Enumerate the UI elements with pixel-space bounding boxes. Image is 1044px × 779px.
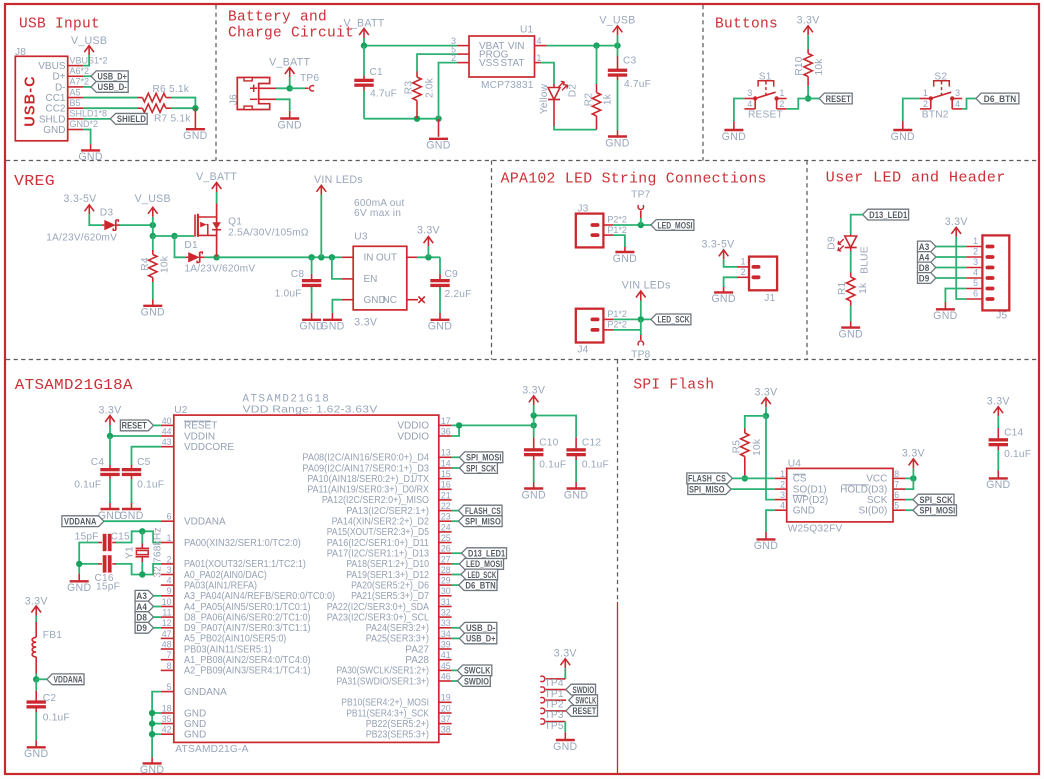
svg-text:VDD Range: 1.62-3.63V: VDD Range: 1.62-3.63V (243, 405, 378, 416)
svg-text:1: 1 (780, 469, 785, 479)
svg-text:J4: J4 (577, 345, 588, 356)
svg-text:PA23(I2C/SER3:0+)_SCL: PA23(I2C/SER3:0+)_SCL (327, 612, 430, 623)
svg-text:C14: C14 (1004, 428, 1023, 439)
U4 WP overline (793, 494, 807, 496)
svg-text:39: 39 (441, 639, 451, 649)
net tag D13_LED1 user led (863, 209, 909, 220)
test point TP7 (640, 218, 642, 225)
svg-text:PA08(I2C/AIN16/SER0:0+)_D4: PA08(I2C/AIN16/SER0:0+)_D4 (302, 453, 429, 464)
svg-text:1: 1 (537, 53, 542, 63)
ground at S1 (733, 121, 735, 130)
wire VSS to bottom rail (439, 63, 458, 119)
svg-text:TP4: TP4 (545, 678, 564, 689)
svg-text:RESET: RESET (572, 706, 596, 716)
svg-text:A3_PA04(AIN4/REFB/SER0:0/TC0:0: A3_PA04(AIN4/REFB/SER0:0/TC0:0) (184, 591, 335, 602)
svg-text:4.7uF: 4.7uF (624, 79, 651, 90)
capacitor C2 0.1uF (35, 679, 37, 690)
U2 pin 21 PA12(I2C/SER2:0+)_MISO (439, 499, 452, 501)
wire V_USB to VBUS pin (83, 55, 89, 66)
svg-text:1.0uF: 1.0uF (275, 289, 302, 300)
junction crystal top (139, 528, 145, 534)
junction crystal bottom (139, 571, 145, 577)
svg-text:3.3V: 3.3V (755, 386, 779, 398)
junction VDDIO C10 (531, 422, 537, 428)
diode D1 (186, 256, 188, 258)
svg-text:1k: 1k (602, 93, 613, 105)
IC U4 W25Q32FV box (787, 468, 893, 522)
wire U2 to tag D13_LED1 (452, 552, 462, 554)
svg-text:D13_LED1: D13_LED1 (869, 210, 907, 220)
ground at J3 (624, 247, 626, 252)
net tag RESET (819, 93, 852, 104)
ground at R7 (194, 108, 196, 129)
U4 pin 3 WP(D2) (775, 499, 787, 501)
J1 pin stubs (737, 266, 749, 268)
U2 pin 25 PA16(I2C/SER1:0+)_D11 (439, 542, 452, 544)
svg-text:GND: GND (891, 131, 915, 143)
svg-text:23: 23 (441, 512, 451, 522)
wire C1 bottom rail (364, 118, 439, 120)
supply 3.3V at FB1 (35, 606, 37, 616)
connector J3 body (576, 214, 604, 248)
svg-text:C12: C12 (582, 438, 601, 449)
test point TP4 (540, 676, 544, 681)
crystal Y1 32.768kHz (141, 531, 143, 543)
svg-text:SWDIO: SWDIO (572, 685, 594, 695)
J8 pin A6*2 (D+) stub (68, 75, 83, 77)
net tag A3 at J5 (918, 241, 936, 252)
ground at crystal caps (78, 574, 80, 582)
junction R5 bottom / CS (742, 475, 748, 481)
svg-text:46: 46 (441, 671, 451, 681)
U2 pin 45 PA30(SWCLK/SER1:2+) (439, 669, 452, 671)
svg-text:3.3-5V: 3.3-5V (63, 193, 97, 205)
svg-text:0.1uF: 0.1uF (582, 459, 609, 470)
svg-text:5: 5 (894, 501, 899, 511)
net tag LED_MOSI at U2 (459, 559, 503, 570)
wire SPI_MISO to SO (731, 488, 775, 490)
svg-text:1: 1 (923, 88, 928, 98)
svg-text:45: 45 (441, 661, 451, 671)
wire U2 to tag D6_BTN (452, 584, 459, 586)
switch S1 contacts and lever (753, 96, 757, 100)
svg-text:PB23(SER5:3+): PB23(SER5:3+) (366, 730, 429, 741)
J4 pad 1 (591, 318, 600, 322)
wire GND pin row 27 (152, 712, 161, 714)
junction R6/R7 (192, 105, 198, 111)
svg-text:B5: B5 (70, 98, 81, 108)
svg-text:2.0k: 2.0k (424, 77, 435, 98)
J5 pin 3 stub (966, 267, 982, 269)
svg-text:2.2uF: 2.2uF (445, 289, 472, 300)
connector J1 body (749, 257, 777, 291)
svg-text:10k: 10k (159, 255, 170, 273)
svg-text:Charge Circuit: Charge Circuit (228, 26, 354, 42)
svg-text:R2: R2 (583, 93, 594, 107)
svg-text:VDDANA: VDDANA (184, 517, 226, 528)
svg-text:19: 19 (441, 693, 451, 703)
svg-text:USB_D-: USB_D- (466, 623, 496, 633)
svg-text:31: 31 (441, 597, 451, 607)
net tag FLASH_CS at U4 (687, 473, 733, 484)
svg-text:U3: U3 (354, 232, 368, 243)
junction RESET net (805, 95, 811, 101)
svg-text:PA11(AIN19/SER0:3+)_D0/RX: PA11(AIN19/SER0:3+)_D0/RX (307, 485, 429, 496)
svg-text:APA102 LED String Connections: APA102 LED String Connections (501, 172, 767, 188)
svg-text:MCP73831: MCP73831 (481, 80, 534, 91)
connector J4 body (576, 309, 604, 343)
svg-text:2: 2 (780, 99, 785, 109)
svg-text:13: 13 (441, 448, 451, 458)
U2 pin 38 PB23(SER5:3+) (439, 733, 452, 735)
wire VDDCORE to C5 (132, 447, 161, 465)
U2 pin 48 PB03(AIN11/SER5:1) (161, 648, 174, 650)
wire S1 pin3 to ground (734, 99, 745, 122)
svg-text:D13_LED1: D13_LED1 (468, 549, 505, 559)
capacitor C8 1.0uF (311, 257, 313, 274)
U2 pin 27 PA18(SER1:2+)_D10 (439, 563, 452, 565)
section divider vertical mcu/spiflash dashed part (617, 360, 619, 603)
svg-text:A3: A3 (136, 591, 147, 601)
wire 3.3V down to WP (766, 416, 775, 500)
J6 plus mark (250, 85, 257, 92)
wire 3.3V to VDDIN (110, 425, 161, 436)
svg-text:11: 11 (162, 608, 171, 618)
svg-text:VDDANA: VDDANA (64, 517, 97, 527)
junction U3 OUT (425, 254, 431, 260)
svg-text:A4_PA05(AIN5/SER0:1/TC0:1): A4_PA05(AIN5/SER0:1/TC0:1) (184, 602, 311, 613)
supply V_BATT main (363, 29, 365, 39)
svg-text:42: 42 (162, 725, 172, 735)
wire VCC to 3.3V (905, 477, 913, 479)
wire C16 to XOUT staple (116, 564, 161, 575)
U2 pin 34 PA25(SER3:3+) (439, 637, 452, 639)
U4 pin 8 VCC (893, 477, 905, 479)
junction R2 top (593, 42, 599, 48)
ground at C9 (439, 313, 441, 320)
net tag USB_D- at U2 (459, 622, 496, 633)
svg-text:VCC: VCC (866, 474, 887, 485)
resistor R2 1k (596, 46, 598, 84)
ground at C12 (575, 482, 577, 489)
svg-text:GND: GND (564, 489, 588, 501)
svg-text:3.3V: 3.3V (554, 648, 578, 660)
svg-text:R6 5.1k: R6 5.1k (153, 84, 190, 95)
U2 pin 1 PA00(XIN32/SER1:0/TC2:0) (161, 542, 174, 544)
wire A3 tag to U2 (154, 595, 161, 597)
svg-text:41: 41 (441, 650, 451, 660)
wire CC1 to R6 (83, 97, 138, 99)
svg-text:PA13(I2C/SER2:1+): PA13(I2C/SER2:1+) (346, 506, 429, 517)
svg-text:PB10(SER4:2+)_MOSI: PB10(SER4:2+)_MOSI (341, 698, 429, 709)
svg-text:IN: IN (364, 252, 374, 263)
net tag SPI_MOSI at U2 (459, 452, 502, 463)
U2 pin 17 VDDIO (439, 424, 452, 426)
wire U2 to tag USB_D+ (452, 637, 460, 639)
net tag SWCLK at TP2 (569, 695, 598, 706)
svg-text:USB_D+: USB_D+ (98, 72, 127, 82)
U4 pin 6 SCK (893, 499, 905, 501)
J8 pin VBUS1*2 (VBUS) stub (68, 65, 83, 67)
net tag RESET at TP3 (566, 706, 598, 717)
U3 pin GND (342, 299, 354, 301)
J8 pin A7*2 (D-) stub (68, 86, 83, 88)
svg-text:Yellow: Yellow (539, 83, 550, 114)
ground at U2 (151, 758, 153, 764)
wire 3.3-5V to J1 pin1 (724, 259, 737, 267)
junction GND row 27 (149, 710, 155, 716)
test point TP6 (305, 87, 309, 89)
wire J3 pin1 to LED_MOSI (613, 224, 651, 226)
LED D9 BLUE (850, 235, 852, 237)
wire OUT to 3.3V junction (417, 256, 440, 258)
svg-text:V_BATT: V_BATT (196, 171, 237, 183)
svg-text:2: 2 (923, 99, 928, 109)
svg-text:SCK: SCK (867, 495, 888, 506)
svg-text:U1: U1 (520, 25, 534, 36)
net tag RESET at U2 (120, 420, 153, 431)
svg-text:D8: D8 (919, 263, 930, 273)
svg-text:A6*2: A6*2 (70, 66, 90, 76)
resistor R5 10k (744, 429, 746, 434)
svg-text:9: 9 (167, 586, 172, 596)
U2 pin 46 PA31(SWDIO/SER1:3+) (439, 680, 452, 682)
supply 3.3V at R5 (765, 398, 767, 408)
wire main rail to U3 IN (217, 256, 342, 258)
wire J5 pin5 to ground (945, 289, 966, 303)
U3 GND wire to ground (332, 300, 341, 313)
svg-text:P1*2: P1*2 (607, 309, 627, 319)
svg-text:FB1: FB1 (43, 630, 62, 641)
net tag SPI_MOSI at U4 (913, 505, 957, 516)
U2 pin 23 PA14(XIN/SER2:2+)_D2 (439, 520, 452, 522)
supply V_USB battery section (617, 26, 619, 36)
resistor R4 10k (152, 236, 154, 250)
wire C15 C16 left rail (79, 543, 98, 574)
svg-text:GND: GND (722, 131, 746, 143)
J5 pin 5 stub (966, 288, 982, 290)
svg-text:U2: U2 (174, 405, 188, 416)
svg-text:EN: EN (364, 274, 378, 285)
svg-text:6V max in: 6V max in (354, 208, 401, 219)
svg-text:V_USB: V_USB (135, 193, 171, 205)
svg-text:PB03(AIN11/SER5:1): PB03(AIN11/SER5:1) (184, 644, 272, 655)
svg-text:1: 1 (780, 88, 785, 98)
svg-text:10k: 10k (814, 58, 825, 76)
svg-text:C15: C15 (111, 532, 130, 543)
capacitor C1 4.7uF (363, 46, 365, 76)
J6 pin stubs (259, 87, 276, 89)
svg-text:30: 30 (441, 586, 451, 596)
J1 pad 1 (752, 265, 761, 269)
J5 pad 2 (986, 255, 995, 259)
net tag USB_D- (83, 86, 91, 88)
svg-text:A4: A4 (136, 602, 147, 612)
J5 pad 1 (986, 245, 995, 249)
svg-text:VIN LEDs: VIN LEDs (622, 280, 671, 292)
svg-text:D-: D- (55, 82, 66, 93)
wire 3.3V to R10 (807, 35, 809, 49)
svg-text:P2*2: P2*2 (607, 215, 627, 225)
svg-text:GND: GND (184, 730, 206, 741)
svg-text:FLASH_CS: FLASH_CS (688, 474, 726, 484)
svg-text:BLUE: BLUE (860, 246, 871, 273)
svg-text:29: 29 (441, 576, 451, 586)
svg-text:47: 47 (162, 629, 172, 639)
junction Q1 drain / D1 (213, 254, 219, 260)
section divider vertical battery/buttons (702, 5, 704, 161)
svg-text:34: 34 (441, 629, 451, 639)
svg-text:D6_BTN: D6_BTN (465, 580, 495, 590)
capacitor C12 0.1uF (575, 437, 577, 448)
svg-text:A5_PB02(AIN10/SER5:0): A5_PB02(AIN10/SER5:0) (184, 634, 286, 645)
supply 3.3V at VDDIN (109, 416, 111, 426)
svg-text:User LED and Header: User LED and Header (826, 171, 1006, 187)
resistor R6 5.1k (138, 97, 143, 99)
svg-text:BTN2: BTN2 (922, 109, 949, 120)
svg-text:SHIELD: SHIELD (117, 114, 147, 124)
IC U3 regulator box (353, 246, 407, 310)
wire J4 pin2 and TP8 stem (640, 319, 642, 335)
J5 pin 4 stub (966, 277, 982, 279)
svg-text:LED_MOSI: LED_MOSI (466, 559, 502, 569)
svg-text:GND: GND (933, 310, 957, 322)
wire SI to SPI_MOSI tag (905, 509, 913, 511)
ground at C8 (311, 313, 313, 320)
svg-text:C9: C9 (445, 269, 459, 280)
capacitor C15 15pF (103, 534, 107, 551)
wire gate branch to Q1 gate (175, 235, 195, 237)
U2 pin 35 GND (161, 723, 174, 725)
junction VSS bottom (435, 116, 441, 122)
svg-text:C8: C8 (291, 269, 305, 280)
svg-text:GND: GND (183, 130, 207, 142)
net tag LED_SCK at U2 (461, 569, 498, 580)
junction EN branch (329, 254, 335, 260)
U4 pin 5 SI(D0) (893, 509, 905, 511)
wire J1 pin2 to ground (724, 277, 737, 287)
svg-text:RESET: RESET (122, 421, 148, 431)
wire D2 to R2 bottom (554, 126, 597, 130)
resistor R3 2.0k (416, 72, 418, 78)
svg-text:GND: GND (428, 321, 452, 333)
svg-text:GND: GND (140, 764, 164, 776)
svg-text:GND: GND (553, 741, 577, 753)
svg-text:A2_PB09(AIN3/SER4:1/TC4:1): A2_PB09(AIN3/SER4:1/TC4:1) (184, 666, 311, 677)
svg-text:PA19(SER1:3+)_D12: PA19(SER1:3+)_D12 (346, 570, 429, 581)
svg-text:5: 5 (973, 278, 978, 288)
net tag D6_BTN (976, 93, 1019, 104)
capacitor C10 0.1uF (533, 425, 535, 437)
U2 pin 18 GND (161, 712, 174, 714)
svg-text:2: 2 (741, 267, 746, 277)
U2 pin 7 A1_PB08(AIN2/SER4:0/TC4:0) (161, 659, 174, 661)
svg-text:TP7: TP7 (631, 190, 650, 201)
svg-text:3: 3 (955, 88, 960, 98)
svg-text:25: 25 (441, 533, 451, 543)
U2 pin 37 PB22(SER5:2+) (439, 723, 452, 725)
U2 pin 5 GNDANA (161, 691, 174, 693)
wire VDDIO pin36 to rail (452, 425, 460, 436)
svg-text:2: 2 (451, 53, 456, 63)
U2 pin 47 A5_PB02(AIN10/SER5:0) (161, 637, 174, 639)
net tag SWDIO at U2 (457, 676, 490, 687)
svg-text:1: 1 (741, 257, 746, 267)
svg-text:15pF: 15pF (96, 582, 120, 593)
svg-text:W25Q32FV: W25Q32FV (788, 524, 843, 535)
svg-text:10: 10 (162, 597, 172, 607)
switch S2 contacts and lever (929, 96, 933, 100)
section divider vertical usb/battery (215, 5, 217, 161)
wire R10 to junction (807, 86, 809, 99)
U2 pin 4 PA03(AIN1/REFA) (161, 584, 174, 586)
J3 pin stubs (603, 224, 613, 226)
svg-text:NC: NC (383, 295, 397, 306)
ground at U4 (765, 532, 767, 540)
svg-text:TP3: TP3 (545, 710, 564, 721)
net tag D8 at J5 (918, 262, 936, 273)
svg-text:3: 3 (780, 490, 785, 500)
U2 pin 19 PB10(SER4:2+)_MOSI (439, 701, 452, 703)
svg-text:PA16(I2C/SER1:0+)_D11: PA16(I2C/SER1:0+)_D11 (327, 538, 430, 549)
net tag A4 at J5 (918, 252, 936, 263)
ground at J8 (90, 144, 92, 150)
svg-text:SO(D1): SO(D1) (793, 484, 827, 495)
wire U2 to tag LED_SCK (452, 574, 461, 576)
wire U2 to tag FLASH_CS (452, 510, 459, 512)
svg-text:GND: GND (711, 293, 735, 305)
svg-text:3.3V: 3.3V (417, 225, 441, 237)
svg-text:2: 2 (780, 480, 785, 490)
svg-text:GND: GND (141, 307, 165, 319)
svg-text:GND: GND (426, 140, 450, 152)
svg-text:SWCLK: SWCLK (464, 666, 491, 676)
svg-text:A0_PA02(AIN0/DAC): A0_PA02(AIN0/DAC) (184, 570, 267, 581)
test point TP2 (540, 697, 544, 703)
ground at C4 (109, 503, 111, 509)
svg-text:C4: C4 (91, 457, 105, 468)
svg-text:C3: C3 (623, 56, 637, 67)
svg-text:GND: GND (43, 125, 65, 136)
U2 pin 9 A3_PA04(AIN4/REFB/SER0:0/TC0:0) (161, 595, 174, 597)
svg-text:15: 15 (441, 469, 451, 479)
svg-text:USB-C: USB-C (22, 75, 38, 126)
svg-text:PA24(SER3:2+): PA24(SER3:2+) (366, 623, 429, 634)
U2 pin 20 PB11(SER4:3+)_SCK (439, 712, 452, 714)
svg-text:CS: CS (793, 474, 807, 485)
supply 3.3V at C14 (997, 407, 999, 417)
U4 pin 7 HOLD(D3) (893, 488, 905, 490)
svg-text:GND: GND (793, 506, 815, 517)
ground at S2 (902, 121, 904, 130)
wire junction down (152, 225, 154, 236)
junction VIN LEDs (318, 254, 324, 260)
ground at J5 (944, 302, 946, 309)
svg-text:3.3V: 3.3V (797, 15, 821, 27)
svg-text:GND: GND (24, 748, 48, 760)
U2 pin 33 PA24(SER3:2+) (439, 627, 452, 629)
ground at U3 (331, 313, 333, 320)
svg-text:17: 17 (441, 416, 451, 426)
wire J6 minus to ground (276, 99, 290, 111)
svg-text:ATSAMD21G-A: ATSAMD21G-A (175, 744, 248, 755)
wire J3 pin2 to ground (613, 235, 625, 247)
svg-text:USB Input: USB Input (19, 17, 100, 33)
U2 pin 13 PA08(I2C/AIN16/SER0:0+)_D4 (439, 456, 452, 458)
U2 pin 42 GND (161, 733, 174, 735)
wire U2 to tag SPI_MOSI (452, 456, 460, 458)
svg-text:A3: A3 (919, 242, 930, 252)
